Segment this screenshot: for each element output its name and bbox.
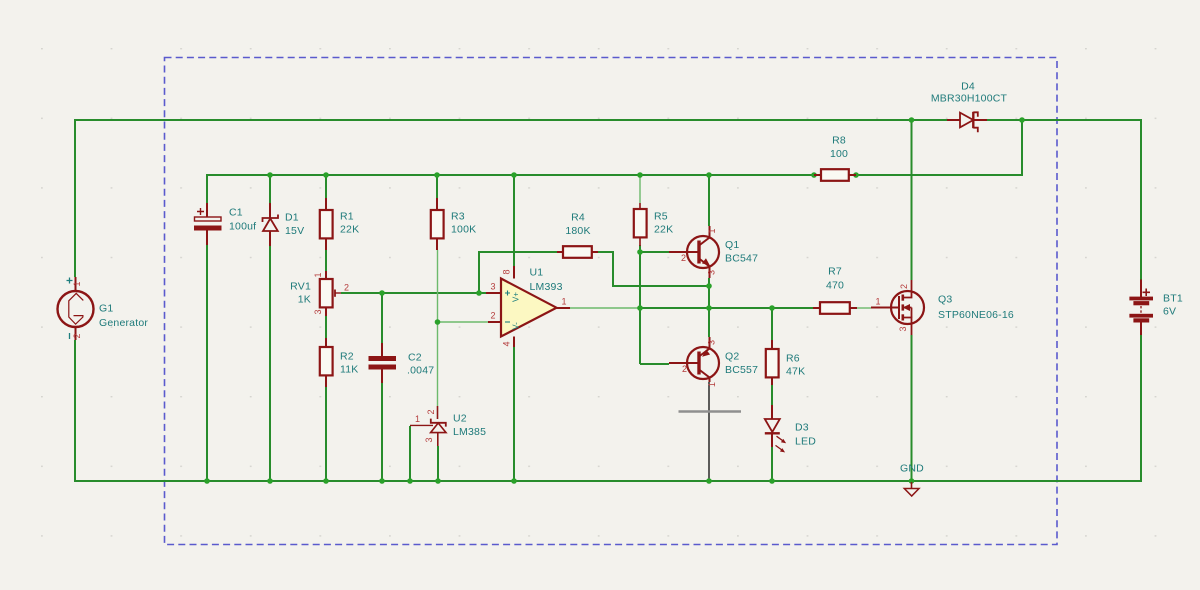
svg-text:180K: 180K	[565, 225, 590, 237]
wire R3 top	[436, 175, 438, 198]
svg-text:D3: D3	[795, 422, 809, 434]
svg-text:2: 2	[72, 333, 82, 338]
svg-text:1: 1	[313, 272, 323, 277]
wire Q1 emitter to Q2	[708, 278, 710, 337]
wire R5 bottom node	[639, 245, 641, 364]
label BT1	[1163, 293, 1183, 318]
node bus D3	[769, 478, 775, 484]
svg-text:15V: 15V	[285, 225, 304, 237]
wire opamp V+	[513, 175, 515, 266]
svg-text:4: 4	[502, 341, 512, 346]
resistor R8	[814, 169, 856, 181]
svg-text:470: 470	[826, 280, 844, 292]
wire R2 bottom	[325, 387, 327, 481]
label Q1	[725, 239, 758, 265]
label D1	[285, 212, 304, 238]
wire R3 to U2 pale	[437, 250, 439, 406]
node bus GND	[909, 478, 915, 484]
svg-text:100: 100	[830, 148, 848, 160]
graphic line black below Q2	[708, 382, 710, 481]
svg-text:LM385: LM385	[453, 426, 486, 438]
svg-text:BT1: BT1	[1163, 293, 1183, 305]
svg-text:3: 3	[424, 437, 434, 442]
pin name - G1	[69, 333, 71, 339]
svg-text:22K: 22K	[654, 224, 673, 236]
label RV1	[290, 281, 311, 306]
node Q1 base	[637, 249, 643, 255]
battery BT1	[1130, 280, 1153, 336]
svg-text:47K: 47K	[786, 366, 805, 378]
label R4	[565, 212, 590, 238]
wire C2 top	[381, 293, 383, 343]
node R6 top	[769, 305, 775, 311]
node vcc R5	[637, 172, 643, 178]
node inverting	[435, 319, 441, 325]
label R5	[654, 211, 673, 236]
wire opamp pin2 pale	[438, 321, 489, 323]
wire U2 pin1 down	[409, 426, 411, 481]
node R8 left	[811, 172, 817, 178]
wire bottom bus	[74, 480, 1141, 482]
node vcc U1	[511, 172, 517, 178]
wire D1 bottom	[269, 246, 271, 481]
wire RV1 wiper to opamp	[341, 292, 486, 294]
svg-text:R2: R2	[340, 351, 354, 363]
svg-text:MBR30H100CT: MBR30H100CT	[931, 93, 1008, 105]
svg-text:1K: 1K	[298, 294, 311, 306]
node bus Q2	[706, 478, 712, 484]
svg-text:2: 2	[426, 409, 436, 414]
label C2	[407, 352, 434, 377]
svg-text:Generator: Generator	[99, 317, 148, 329]
label C1	[229, 207, 256, 233]
wire R6 to D3	[771, 385, 773, 405]
graphic line gray	[679, 410, 742, 413]
svg-text:C2: C2	[408, 352, 422, 364]
wire RV1 to R2	[325, 316, 327, 338]
wire Q1 base	[640, 251, 669, 253]
wire output mid	[639, 307, 813, 309]
wire D1 top	[269, 175, 271, 203]
label U1	[530, 267, 563, 294]
svg-text:1: 1	[72, 281, 82, 286]
svg-text:2: 2	[681, 253, 686, 263]
label D4	[931, 81, 1008, 105]
op-amp U1	[486, 266, 570, 347]
svg-text:.0047: .0047	[407, 365, 434, 377]
svg-text:1: 1	[707, 382, 717, 387]
sheet boundary dashed box	[165, 58, 1058, 545]
label D3	[795, 422, 816, 448]
svg-text:R7: R7	[828, 266, 842, 278]
resistor R7	[813, 302, 857, 314]
LED D3	[765, 405, 786, 452]
svg-text:2: 2	[682, 364, 687, 374]
label R7	[826, 266, 844, 292]
resistor R1	[320, 198, 333, 250]
wire feedback up	[479, 252, 557, 293]
wire top rail right	[987, 120, 1141, 280]
svg-text:3: 3	[898, 326, 908, 331]
label U2	[453, 413, 486, 439]
svg-text:Q2: Q2	[725, 351, 739, 363]
svg-text:1: 1	[875, 297, 880, 307]
wire C2 bottom	[381, 383, 383, 481]
node bus D1	[267, 478, 273, 484]
svg-text:2: 2	[899, 284, 909, 289]
svg-text:2: 2	[490, 311, 495, 321]
transistor Q1	[669, 226, 719, 278]
svg-text:11K: 11K	[340, 364, 359, 376]
node top Q3	[909, 117, 915, 123]
wire opamp V- down	[513, 347, 515, 481]
svg-text:D4: D4	[961, 81, 975, 93]
node vcc R1	[323, 172, 329, 178]
label G1	[99, 303, 148, 330]
svg-text:BC557: BC557	[725, 364, 758, 376]
svg-text:G1: G1	[99, 303, 113, 315]
svg-text:100uf: 100uf	[229, 221, 256, 233]
svg-text:3: 3	[490, 282, 495, 292]
wire D3 bottom	[771, 447, 773, 481]
node emitter output	[706, 305, 712, 311]
wire R4 right	[598, 252, 709, 286]
svg-text:3: 3	[313, 309, 323, 314]
label Q2	[725, 351, 758, 377]
svg-text:3: 3	[707, 340, 717, 345]
label R8	[830, 135, 848, 161]
svg-text:RV1: RV1	[290, 281, 311, 293]
svg-text:LM393: LM393	[530, 281, 563, 293]
svg-text:C1: C1	[229, 207, 243, 219]
label R3	[451, 211, 476, 236]
svg-text:D1: D1	[285, 212, 299, 224]
svg-text:R5: R5	[654, 211, 668, 223]
pin name + G1	[67, 278, 73, 284]
wire left source drop	[74, 340, 76, 482]
svg-text:U2: U2	[453, 413, 467, 425]
node feedback	[476, 290, 482, 296]
resistor R5	[634, 203, 647, 246]
svg-text:R1: R1	[340, 211, 354, 223]
ground symbol GND	[904, 482, 919, 496]
wire U2 pin3 bottom	[437, 446, 439, 481]
node bus R2	[323, 478, 329, 484]
wire R1 top	[325, 175, 327, 198]
wire R6 top	[771, 308, 773, 340]
wire Q2 base	[640, 363, 669, 365]
resistor R3	[431, 198, 444, 250]
svg-text:V-: V-	[512, 322, 521, 330]
svg-text:U1: U1	[530, 267, 544, 279]
label Q3	[938, 294, 1014, 322]
svg-text:3: 3	[707, 270, 717, 275]
node bus C2	[379, 478, 385, 484]
node R4 emitter	[706, 283, 712, 289]
wire Q3 source to gnd	[911, 335, 913, 481]
svg-text:BC547: BC547	[725, 253, 758, 265]
svg-text:R6: R6	[786, 353, 800, 365]
capacitor C1	[195, 203, 222, 245]
node vcc D1	[267, 172, 273, 178]
wire C1 bottom	[206, 245, 208, 481]
label R2	[340, 351, 359, 376]
wire Q1 collector	[708, 175, 710, 226]
svg-text:1: 1	[415, 414, 420, 424]
mosfet Q3	[871, 280, 924, 335]
svg-text:Q3: Q3	[938, 294, 952, 306]
wire R1 to RV1	[325, 250, 327, 271]
svg-text:22K: 22K	[340, 224, 359, 236]
svg-text:2: 2	[344, 283, 349, 293]
node output	[637, 305, 643, 311]
svg-text:6V: 6V	[1163, 306, 1176, 318]
zener diode D1	[263, 203, 279, 246]
node vcc Q1	[706, 172, 712, 178]
resistor R4	[557, 246, 598, 258]
svg-text:V+: V+	[512, 292, 521, 302]
svg-text:100K: 100K	[451, 224, 476, 236]
svg-text:STP60NE06-16: STP60NE06-16	[938, 309, 1014, 321]
resistor R2	[320, 338, 333, 387]
node R8 right	[853, 172, 859, 178]
node bus U2a	[407, 478, 413, 484]
generator G1	[58, 277, 94, 340]
wire vcc bus	[207, 175, 814, 203]
svg-text:1: 1	[561, 297, 566, 307]
label R6	[786, 353, 805, 378]
wire battery bottom	[1140, 335, 1142, 482]
svg-text:GND: GND	[900, 463, 924, 475]
node bus U1	[511, 478, 517, 484]
potentiometer RV1	[320, 271, 341, 316]
svg-text:8: 8	[502, 269, 512, 274]
wire top rail left	[75, 120, 947, 277]
wire R7 to Q3 gate pale	[857, 307, 871, 309]
node wiper C2	[379, 290, 385, 296]
schottky diode D4	[947, 112, 987, 132]
wire Q3 drain	[911, 120, 913, 280]
resistor R6	[766, 340, 779, 385]
voltage reference U2	[410, 406, 446, 446]
node bus U2b	[435, 478, 441, 484]
capacitor C2	[369, 343, 396, 383]
node bus C1	[204, 478, 210, 484]
wire vcc bus right of R8	[856, 120, 1022, 175]
svg-text:R4: R4	[571, 212, 585, 224]
svg-text:LED: LED	[795, 436, 816, 448]
transistor Q2	[669, 337, 719, 382]
node top D4	[1019, 117, 1025, 123]
label R1	[340, 211, 359, 236]
svg-text:Q1: Q1	[725, 239, 739, 251]
wire opamp output pale	[570, 307, 639, 309]
node vcc R3	[434, 172, 440, 178]
svg-text:1: 1	[707, 228, 717, 233]
svg-text:R3: R3	[451, 211, 465, 223]
wire R5 top pale	[639, 176, 641, 203]
svg-text:R8: R8	[832, 135, 846, 147]
